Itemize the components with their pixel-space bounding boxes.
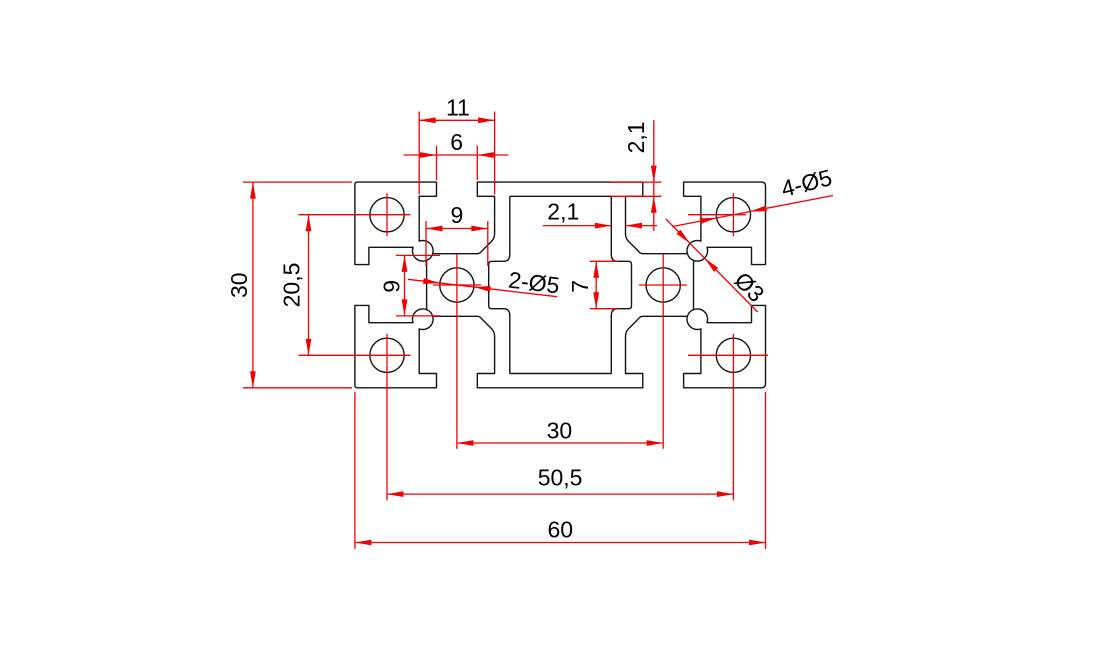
dimension 6 (slot mouth width) bbox=[404, 129, 509, 180]
centrelines hole bottom-right bbox=[688, 334, 768, 501]
hole Ø5 top-right bbox=[716, 198, 750, 232]
svg-text:30: 30 bbox=[547, 417, 573, 443]
centrelines hole bottom-left bbox=[298, 334, 410, 501]
hole Ø5 mid-right bbox=[646, 268, 680, 302]
dimension 20,5 (hole row spacing) bbox=[278, 215, 311, 356]
svg-text:30: 30 bbox=[226, 272, 252, 298]
svg-text:6: 6 bbox=[450, 129, 463, 155]
hole Ø5 bottom-right bbox=[716, 338, 750, 372]
hole Ø5 top-left bbox=[370, 198, 404, 232]
profile outer outline with T-slots bbox=[355, 182, 766, 388]
corner relief arc bottom-left bbox=[427, 310, 433, 317]
dimension 11 (slot recess width) bbox=[419, 94, 494, 194]
centrelines hole mid-left bbox=[433, 254, 481, 449]
svg-text:9: 9 bbox=[451, 202, 464, 228]
svg-text:7: 7 bbox=[567, 280, 593, 293]
svg-text:50,5: 50,5 bbox=[538, 465, 583, 491]
centrelines hole top-right bbox=[688, 193, 746, 236]
svg-text:60: 60 bbox=[548, 516, 574, 542]
leader Ø3 (corner relief) bbox=[666, 219, 770, 312]
dimension 60 (profile width) bbox=[355, 392, 766, 549]
svg-text:2,1: 2,1 bbox=[623, 121, 649, 153]
dimension 2,1 (lip thickness) bbox=[611, 120, 662, 231]
dimension 2,1 (web thickness) bbox=[543, 199, 657, 229]
corner relief arc bottom-right bbox=[687, 310, 693, 317]
dimension 30 (centre hole spacing) bbox=[457, 417, 663, 446]
hole Ø5 mid-left bbox=[440, 268, 474, 302]
central cavity with side notches bbox=[489, 196, 632, 373]
leader 2-Ø5 (centre holes) bbox=[408, 266, 561, 298]
dimension 30 (profile height) bbox=[226, 182, 352, 388]
centrelines hole mid-right bbox=[639, 254, 687, 449]
centrelines hole top-left bbox=[298, 193, 410, 236]
svg-text:11: 11 bbox=[446, 94, 470, 120]
hole Ø5 bottom-left bbox=[370, 338, 404, 372]
leader 4-Ø5 (corner holes) bbox=[672, 164, 834, 226]
corner relief arc top-right bbox=[687, 254, 693, 261]
dimension 9 (side slot floor height) bbox=[378, 255, 440, 316]
dimension 7 (notch height) bbox=[567, 261, 618, 308]
dimension 9 (slot floor width) bbox=[426, 202, 488, 266]
corner relief arc top-left bbox=[427, 254, 433, 261]
svg-text:9: 9 bbox=[378, 280, 404, 293]
svg-text:2,1: 2,1 bbox=[547, 199, 579, 225]
dimension 50,5 (corner hole spacing) bbox=[387, 465, 733, 497]
svg-text:20,5: 20,5 bbox=[278, 263, 304, 308]
